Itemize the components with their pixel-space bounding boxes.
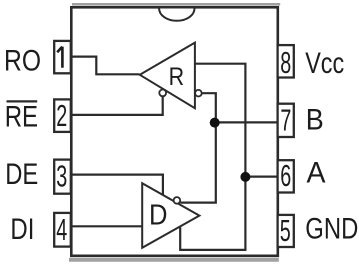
wire pin7 branch — [216, 121, 278, 123]
bubble RE enable on R — [159, 90, 166, 97]
overline of RE — [7, 100, 38, 102]
wire net A: R input to D output via pin 6 — [180, 64, 245, 250]
svg-text:B: B — [306, 104, 324, 137]
svg-text:A: A — [307, 156, 326, 189]
wire RO pin1 to R output — [71, 57, 140, 75]
svg-text:2: 2 — [56, 98, 67, 133]
junction node B — [210, 118, 220, 128]
pin 1 box — [54, 41, 71, 73]
svg-text:RE: RE — [5, 100, 38, 133]
svg-text:DI: DI — [10, 213, 34, 246]
svg-text:DE: DE — [5, 158, 38, 191]
svg-text:3: 3 — [56, 158, 67, 193]
bubble B output on D — [174, 197, 181, 204]
pin 2 box — [54, 99, 71, 131]
pin 8 box — [278, 45, 294, 77]
receiver R triangle — [140, 43, 195, 109]
wire DI pin4 to D input — [71, 225, 142, 227]
pin 5 box — [278, 215, 294, 247]
svg-text:R: R — [169, 63, 185, 91]
svg-text:4: 4 — [56, 212, 67, 247]
svg-text:6: 6 — [280, 158, 291, 193]
wire RE pin2 to R enable bubble — [71, 97, 163, 115]
svg-text:RO: RO — [4, 44, 41, 77]
bubble B input on R — [195, 90, 202, 97]
pin 6 box — [278, 160, 294, 192]
IC body shadow — [69, 4, 280, 259]
svg-text:7: 7 — [280, 102, 291, 137]
svg-text:8: 8 — [280, 45, 291, 80]
svg-text:GND: GND — [305, 213, 358, 246]
svg-text:D: D — [149, 200, 168, 232]
IC body U1 — [71, 7, 277, 256]
driver D triangle — [142, 183, 199, 248]
pin 7 box — [278, 104, 294, 137]
pin 1 number — [57, 47, 62, 68]
pin-1 orientation notch — [159, 9, 194, 21]
svg-text:Vcc: Vcc — [305, 47, 344, 80]
pin 3 box — [54, 160, 71, 194]
wire pin6 branch — [245, 176, 277, 178]
wire DE pin3 to D enable — [71, 175, 163, 195]
pin 4 box — [54, 213, 71, 247]
svg-text:5: 5 — [280, 213, 291, 248]
wire net B: R inverting input to D inverting output — [180, 93, 215, 202]
junction node A — [240, 172, 250, 182]
